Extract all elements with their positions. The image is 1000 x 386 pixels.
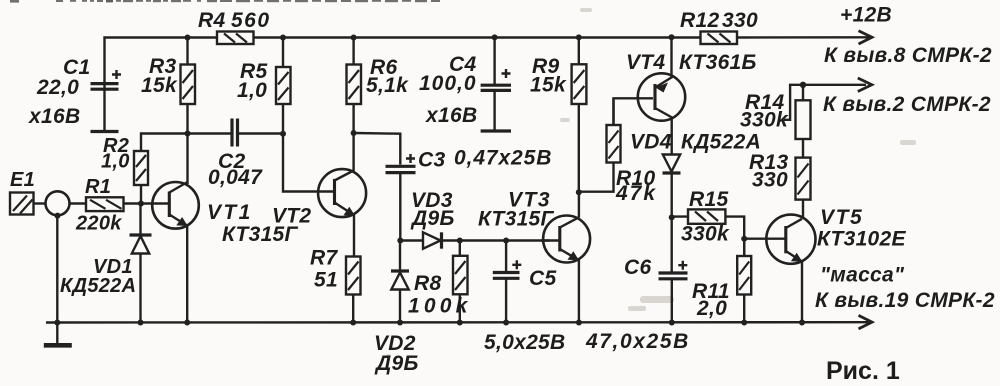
svg-text:Д9Б: Д9Б [410, 207, 455, 230]
svg-text:330: 330 [722, 9, 758, 32]
resistor R5 [276, 38, 291, 134]
svg-text:47k: 47k [615, 182, 657, 205]
label VD1 KD522A [60, 256, 136, 297]
svg-text:51: 51 [314, 269, 338, 292]
label K vyv.19 SMRK-2 [815, 289, 995, 312]
svg-text:1,0: 1,0 [237, 79, 267, 102]
wire top supply rail middle segment [254, 36, 701, 38]
node junction dots VD3 wire [397, 238, 509, 244]
svg-text:КТ315Г: КТ315Г [478, 208, 555, 231]
wire VT4 base to R10 [614, 98, 654, 125]
arrowhead +12V output [859, 31, 873, 44]
node junction VT5 base / R11 [741, 236, 747, 242]
transistor VT4 [638, 37, 685, 154]
resistor R11 [737, 239, 751, 323]
resistor R3 [181, 38, 196, 185]
svg-text:КТ3102Е: КТ3102Е [817, 228, 907, 251]
svg-text:15k: 15k [141, 74, 178, 97]
value label C3 0,47x25B [418, 147, 552, 172]
value label 47,0x25B [585, 330, 690, 353]
label +12V [840, 4, 892, 27]
svg-text:х16В: х16В [28, 105, 80, 128]
label C6 [624, 256, 651, 279]
svg-text:"масса": "масса" [820, 264, 905, 287]
resistor R7 [346, 257, 361, 323]
svg-text:Рис. 1: Рис. 1 [826, 357, 900, 385]
svg-text:1,0: 1,0 [101, 151, 130, 173]
diode VD2 [391, 241, 409, 323]
svg-text:47,0х25В: 47,0х25В [585, 330, 690, 353]
resistor R6 [347, 38, 362, 134]
svg-text:330k: 330k [681, 223, 730, 246]
svg-text:220k: 220k [75, 213, 122, 235]
svg-text:100k: 100k [408, 295, 472, 318]
label C5 [529, 267, 556, 290]
label R5 1,0 [237, 60, 267, 102]
node junction dots bottom rail [54, 320, 805, 326]
label VT4 KT361B [626, 51, 757, 74]
label R15 330k [681, 188, 730, 246]
svg-text:Д9Б: Д9Б [374, 352, 419, 375]
node junction dots top rail [185, 34, 675, 40]
transistor VT3 [541, 192, 590, 322]
resistor R14 [796, 85, 811, 158]
value label C4 100,0 x16B [419, 53, 477, 127]
node base junction VT1 [138, 201, 144, 207]
value label C1 22,0 x16B [28, 56, 90, 128]
wire output 2 with leader [784, 85, 866, 120]
label K vyv.2 SMRK-2 [823, 93, 991, 116]
svg-text:560: 560 [231, 9, 271, 32]
svg-text:R12: R12 [680, 9, 719, 32]
resistor R15 [672, 209, 745, 256]
svg-text:22,0: 22,0 [36, 76, 79, 99]
svg-text:5,1k: 5,1k [366, 74, 409, 97]
svg-text:VT1: VT1 [207, 201, 253, 224]
svg-text:330k: 330k [740, 109, 789, 132]
label R3 15k [141, 55, 178, 97]
resistor R4 [217, 32, 254, 45]
value label 5,0x25B [484, 331, 566, 354]
svg-text:2,0: 2,0 [696, 297, 727, 320]
label KT315G shared [222, 223, 299, 246]
diode VD4 [663, 155, 681, 272]
label R9 15k [530, 55, 567, 97]
label R6 5,1k [366, 56, 409, 97]
svg-text:R1: R1 [85, 176, 111, 198]
figure caption Ris.1 [826, 357, 900, 385]
capacitor C4 [481, 37, 511, 131]
capacitor C1 [91, 70, 122, 132]
capacitor C5 [493, 241, 522, 323]
svg-text:R7: R7 [310, 247, 338, 270]
wire node-A horizontal (R2 to C2 to R5) [141, 134, 283, 152]
svg-text:КД522А: КД522А [60, 275, 136, 297]
transistor VT1 [152, 182, 199, 323]
node junction dots mid wire [185, 130, 357, 137]
microphone element E1 [10, 191, 86, 218]
node junction R14 top [800, 82, 806, 88]
node junction R15/VD4/C6 [669, 214, 675, 220]
resistor R2 [134, 151, 148, 205]
svg-text:R8: R8 [414, 272, 441, 295]
label R13 330 [749, 151, 788, 192]
label VD2 D9B [374, 332, 419, 375]
capacitor C2 [232, 119, 238, 147]
label R2 1,0 [101, 135, 130, 173]
arrowhead output 2 [858, 78, 872, 92]
label R4 560 [198, 9, 271, 32]
label R12 330 [680, 9, 758, 32]
label R1 220k [75, 176, 122, 235]
wire microphone to ground bus [56, 215, 58, 323]
transistor VT2 [283, 133, 366, 257]
svg-text:0,047: 0,047 [208, 166, 263, 189]
diode VD1 [130, 204, 152, 323]
wire top supply rail right segment to +12V arrow [737, 36, 869, 39]
svg-text:К выв.19 СМРК-2: К выв.19 СМРК-2 [815, 289, 995, 312]
arrowhead ground bus to MASSA [859, 315, 873, 329]
label R14 330k [740, 91, 789, 132]
svg-text:С3: С3 [418, 149, 445, 172]
svg-text:5,0х25В: 5,0х25В [484, 331, 566, 354]
transistor VT5 [744, 215, 815, 323]
svg-text:VT2: VT2 [272, 205, 311, 228]
label R10 47k [615, 167, 657, 205]
svg-text:КТ361Б: КТ361Б [679, 51, 757, 74]
label R8 100k [408, 272, 472, 318]
label VT5 KT3102E [817, 206, 907, 251]
label VD3 D9B [410, 189, 455, 230]
svg-text:С5: С5 [529, 267, 556, 290]
capacitor C6 [659, 261, 688, 323]
label VD4 KD522A [630, 131, 761, 154]
label C2 0,047 [208, 150, 263, 189]
resistor R12 [701, 32, 738, 45]
wire top supply rail left segment [105, 38, 218, 91]
label K vyv.8 SMRK-2 [824, 44, 992, 67]
svg-text:К выв.2 СМРК-2: К выв.2 СМРК-2 [823, 93, 991, 116]
svg-text:+12В: +12В [840, 4, 892, 27]
svg-text:R4: R4 [198, 9, 225, 32]
capacitor C3 [386, 154, 416, 241]
svg-text:VT4: VT4 [626, 51, 665, 74]
resistor R10 [579, 98, 621, 191]
label VT1 [207, 201, 253, 224]
label VT3 KT315G [478, 189, 555, 231]
ground symbol [44, 323, 72, 346]
svg-text:330: 330 [752, 169, 788, 192]
node junction R9/R10/VT3 collector [576, 189, 582, 195]
resistor R13 [796, 158, 811, 218]
svg-text:К выв.8 СМРК-2: К выв.8 СМРК-2 [824, 44, 992, 67]
label massa [820, 264, 905, 287]
svg-text:100,0: 100,0 [419, 72, 477, 95]
svg-text:VD4: VD4 [630, 131, 672, 154]
svg-text:С6: С6 [624, 256, 651, 279]
svg-text:0,47х25В: 0,47х25В [454, 147, 552, 170]
diode VD3 [400, 232, 549, 248]
resistor R9 [572, 37, 587, 192]
resistor R1 [86, 197, 152, 211]
wire R6/VT2-collector to C3 [354, 133, 401, 165]
label R11 2,0 [692, 280, 730, 320]
svg-text:15k: 15k [530, 74, 567, 97]
wire ground bus bottom rail [46, 321, 869, 324]
svg-text:R15: R15 [689, 188, 728, 211]
label VT2 [272, 205, 311, 228]
label E1 [10, 169, 35, 191]
label R7 51 [310, 247, 338, 292]
svg-text:Е1: Е1 [10, 169, 35, 191]
resistor R8 [453, 241, 468, 323]
svg-text:х16В: х16В [425, 104, 477, 127]
svg-text:VT5: VT5 [820, 206, 863, 229]
